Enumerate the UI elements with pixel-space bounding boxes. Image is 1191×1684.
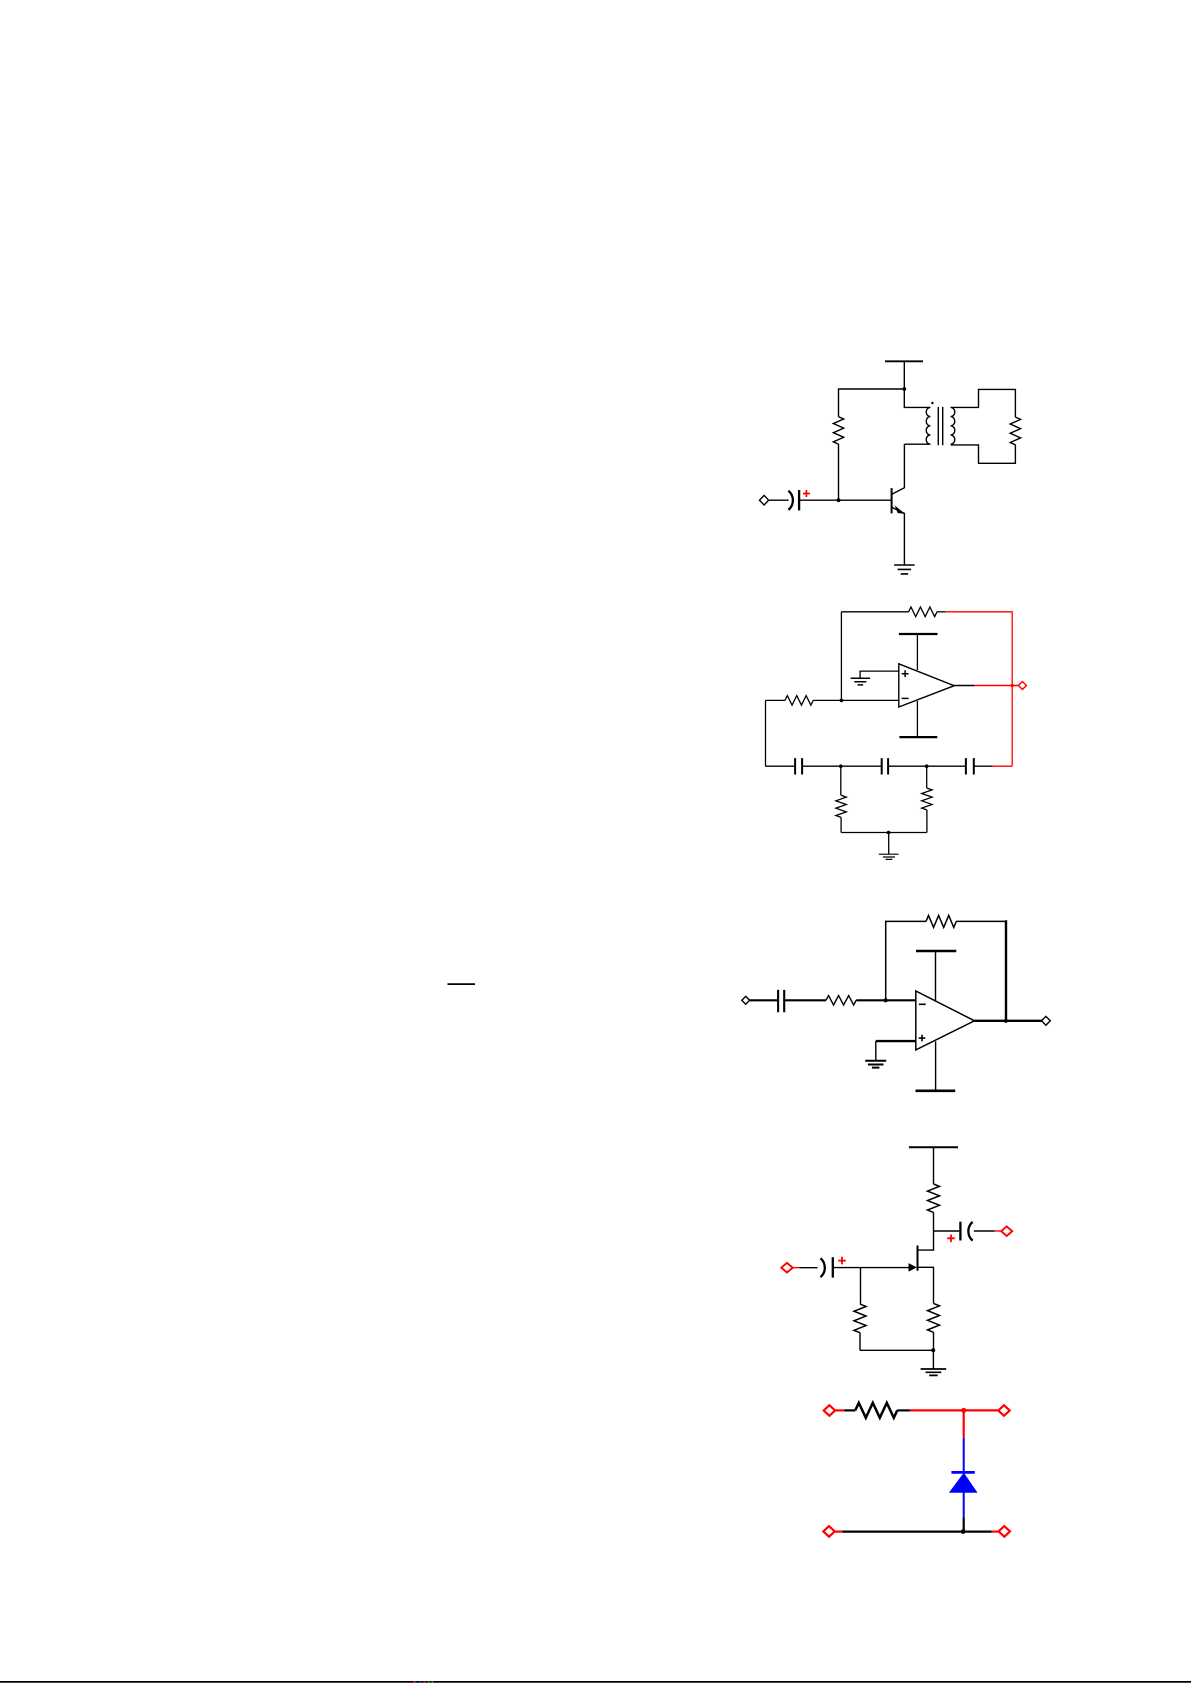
wire feedback top left [841,611,908,613]
wire feedback red to output net [946,612,1012,766]
transistor Q2 channel bar [917,1246,919,1271]
wire red bottom left stub [835,1530,843,1532]
wire input to C1 [769,499,789,501]
terminal output diamond red bottom right [999,1526,1010,1537]
transformer T1 secondary winding [951,407,955,444]
wire black anode to bottom bus [963,1517,965,1531]
terminal input diamond red top left [824,1405,835,1416]
wire red input stub [793,1267,800,1269]
power rail VDD bar [909,1146,958,1148]
wire C in to gate [833,1267,910,1269]
wire feedback stub black [937,611,946,613]
wire to ground [888,833,890,855]
power rail V+ bar [916,950,956,952]
resistor RD drain [928,1184,940,1212]
wire blue diode anode lead [963,1492,965,1517]
ground symbol circuit 2 bottom [879,854,899,859]
resistor R limiter [855,1403,897,1418]
transformer T1 core [938,407,942,445]
transistor Q1 emitter lead [892,507,905,565]
wire output red [974,685,1018,687]
wire to input resistor [766,699,786,701]
wire R to inverting input [856,999,916,1001]
op-amp U1 triangle [899,664,954,707]
wire output stub [954,685,974,687]
wire red bottom right stub [992,1530,999,1532]
power pin V- [916,701,918,737]
capacitor C2b [882,758,888,774]
wire left leg down [765,700,767,766]
wire bottom bus [860,1349,934,1351]
op-amp U1 minus label [902,697,909,699]
resistor RS source [928,1303,940,1332]
transformer T1 polarity dot [931,402,933,404]
wire chain segment 3 [888,765,966,767]
wire load bottom to secondary bottom [951,445,1016,464]
terminal output diamond red [1018,682,1026,690]
node top junction red dot [961,1408,966,1413]
resistor R input [785,696,813,706]
fraction bar in text column [448,983,476,985]
node inverting input dot [884,998,888,1002]
terminal input diamond red bottom left [823,1526,834,1537]
wire chain segment 2 [802,765,882,767]
wire to R limiter [844,1409,855,1411]
power rail V- bar [899,736,937,738]
wire RG to bottom bus [859,1333,861,1351]
wire R to node black stub [897,1409,910,1411]
power rail VCC bar [885,360,923,362]
transistor Q1 collector lead [892,444,905,494]
ground symbol circuit 1 [894,565,915,574]
wire left vertical to inverting input [840,612,842,701]
terminal output diamond red top right [998,1405,1009,1416]
capacitor C in curved plate [821,1258,825,1277]
wire drain node to C out [934,1230,960,1232]
wire C out to terminal [974,1230,995,1232]
capacitor C1 flat plate [798,490,800,510]
wire RD to drain node [918,1212,934,1250]
node inverting input dot [840,699,844,703]
wire input to C in [800,1267,818,1269]
C1 plus polarity mark [803,490,810,497]
node output junction red dot [1011,684,1014,687]
wire output [975,1020,1042,1022]
node output junction dot [1004,1019,1008,1023]
transistor Q1 base bar [891,488,893,513]
power rail V- bar [916,1090,956,1093]
resistor R feedback [909,607,937,617]
node bottom junction dot [961,1529,966,1534]
wire red input stub [835,1409,844,1411]
ground symbol circuit 3 [865,1061,886,1068]
wire red to output terminal [995,1230,1002,1232]
resistor R2b to ground [926,766,928,788]
resistor R load [1010,417,1020,445]
terminal output diamond [1042,1016,1051,1025]
op-amp U2 minus label [919,1003,926,1005]
terminal input diamond red [781,1263,792,1273]
resistor RG gate [854,1304,866,1333]
power pin V+ [916,634,918,670]
wire blue diode cathode lead [963,1438,965,1473]
wire node to R1 top [839,389,905,417]
capacitor C3 [778,990,784,1012]
wire secondary top to load [951,389,1016,417]
wire red top net [910,1409,998,1411]
C out plus polarity mark [947,1235,955,1243]
wire VCC to node [903,361,905,389]
wire node to transformer primary [904,389,930,407]
subpixel text remnant specks [414,1681,434,1683]
resistor R2a to ground [840,766,842,795]
capacitor C2c [966,758,974,774]
terminal input diamond [760,495,769,505]
wire noninverting input to ground [860,671,899,678]
node chain junction 1 dot [839,764,843,768]
node chain junction 2 dot [925,764,929,768]
power pin V- [935,1041,937,1090]
power pin V+ [935,951,937,1001]
wire inverting input [841,699,898,701]
wire red node to diode [963,1409,965,1438]
node ground bus dot [887,831,891,835]
wire feedback top right [956,920,1006,922]
wire bottom chain segment 1 [766,765,796,767]
power rail V+ bar [899,633,938,635]
node junction dot [902,387,906,391]
C in plus polarity mark [838,1257,846,1265]
transistor Q2 source lead [918,1267,934,1303]
wire input to C3 [750,999,779,1001]
transistor Q1 emitter arrow [896,507,904,513]
page bottom rule [0,1681,1191,1683]
wire chain segment 4 black [974,765,993,767]
resistor R1 (base bias) [833,417,843,444]
capacitor C out flat plate [959,1222,961,1241]
ground symbol at op-amp plus input [851,678,871,685]
ground symbol circuit 4 [921,1369,947,1375]
wire feedback left vertical [886,921,926,1000]
wire gate node down to RG [860,1268,862,1304]
wire R1 bottom to base node [838,444,840,500]
capacitor C2a [795,758,802,774]
wire feedback right vertical [1005,920,1007,1021]
node bottom bus dot [931,1348,935,1352]
terminal input diamond [742,996,750,1004]
transformer T1 primary winding [926,407,930,444]
wire C3 to R series [784,999,826,1001]
resistor R feedback [926,915,956,927]
wire chain red to output net [993,765,1013,767]
op-amp U1 plus label [902,670,909,677]
wire bottom bus [842,1530,991,1532]
wire noninverting input to ground [876,1040,916,1042]
op-amp U2 triangle [916,991,975,1050]
node base junction dot [837,498,841,502]
wire VDD to RD [933,1147,935,1184]
wire to ground [932,1350,934,1369]
diode D1 triangle [950,1474,977,1493]
terminal output diamond red [1001,1226,1012,1236]
wire RS to bottom bus [933,1332,935,1350]
capacitor C1 polarized (curved plate) [788,491,792,510]
wire C1 to base [799,499,892,501]
capacitor C in flat plate [832,1257,834,1277]
diode D1 cathode bar [951,1471,974,1474]
transistor Q2 gate arrow [909,1264,917,1272]
wire primary bottom to collector [904,443,930,445]
wire resistor to inverting node [813,699,841,701]
resistor R series input [826,996,856,1005]
capacitor C out curved plate [968,1222,972,1241]
wire bottom ground bus [841,832,927,834]
op-amp U2 plus label [919,1035,926,1042]
